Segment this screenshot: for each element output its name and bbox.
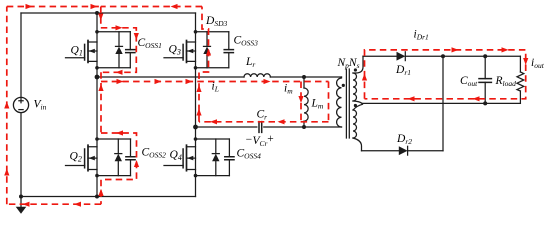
svg-text:Vin: Vin bbox=[34, 99, 47, 112]
svg-text:iL: iL bbox=[212, 81, 219, 94]
transistor Q2 bbox=[66, 145, 98, 171]
wire red COSS1 loop bbox=[101, 28, 137, 73]
wire Q4 cell bottom bbox=[196, 175, 230, 177]
wire red iL line bbox=[101, 81, 329, 83]
svg-text:Dr2: Dr2 bbox=[396, 133, 412, 146]
wire rectifier link bbox=[442, 56, 444, 151]
wire Cr rail bbox=[196, 126, 342, 128]
wire Q1 cell bottom bbox=[97, 67, 130, 69]
wire red Cr return bbox=[199, 121, 329, 123]
wire Q2 leg bbox=[96, 77, 98, 197]
transformer secondary winding 2 bbox=[353, 104, 363, 150]
wire red bottom return bbox=[7, 203, 101, 205]
wire red node B riser bbox=[199, 7, 209, 122]
svg-text:COSS2: COSS2 bbox=[142, 147, 167, 160]
capacitor COSS4 bbox=[225, 139, 234, 176]
ground bbox=[16, 197, 27, 214]
node dots bbox=[19, 11, 487, 199]
svg-text:Dr1: Dr1 bbox=[395, 64, 411, 77]
svg-text:Lr: Lr bbox=[245, 56, 255, 69]
wire Q2 cell top bbox=[97, 138, 131, 140]
svg-text:NpNs: NpNs bbox=[337, 57, 360, 70]
transistor Q3 bbox=[164, 41, 196, 63]
transformer primary Np bbox=[337, 77, 342, 127]
capacitor Cr bbox=[259, 122, 262, 133]
wire bottom rail bbox=[21, 196, 196, 198]
transformer secondary winding 1 bbox=[353, 56, 363, 103]
wire Q3-Q4 leg bbox=[195, 13, 197, 197]
svg-text:Q1: Q1 bbox=[71, 45, 83, 58]
svg-text:COSS1: COSS1 bbox=[138, 37, 162, 50]
svg-text:COSS3: COSS3 bbox=[234, 35, 259, 48]
svg-text:COSS4: COSS4 bbox=[237, 148, 262, 161]
svg-text:DSD3: DSD3 bbox=[205, 15, 227, 28]
diode DSD3 bbox=[203, 32, 210, 68]
wire top rail bbox=[21, 12, 196, 14]
red current paths bbox=[7, 7, 526, 205]
wire Dr1 rail bbox=[363, 55, 520, 57]
svg-text:Q4: Q4 bbox=[170, 149, 182, 162]
wire red left edge bbox=[6, 7, 8, 205]
capacitor COSS2 bbox=[126, 139, 135, 176]
diode Dr2 bbox=[399, 146, 408, 155]
diode Q1 body bbox=[115, 32, 122, 68]
wire Q3 cell bottom bbox=[196, 67, 229, 69]
diode Q4 body bbox=[212, 139, 219, 176]
wire node A rail bbox=[97, 76, 244, 78]
wire red Q1 descent bbox=[100, 7, 102, 28]
svg-text:iDr1: iDr1 bbox=[414, 29, 429, 42]
svg-text:Rload: Rload bbox=[495, 75, 517, 88]
diode Q2 body bbox=[115, 139, 122, 176]
inductor Lr bbox=[244, 74, 270, 77]
wire red im branch bbox=[300, 82, 302, 122]
transistor Q4 bbox=[164, 145, 196, 171]
wire Q2 cell bottom bbox=[97, 175, 131, 177]
wire Q4 cell top bbox=[196, 138, 230, 140]
wire red COSS2 loop bbox=[101, 133, 137, 204]
svg-text:+: + bbox=[267, 133, 275, 145]
wire node A rail right bbox=[270, 76, 341, 78]
wire Dr2 row bbox=[362, 150, 444, 152]
svg-text:Cr: Cr bbox=[257, 109, 268, 122]
wire red Lm box right bbox=[328, 82, 330, 122]
inductor Lm bbox=[304, 77, 308, 127]
transformer core bbox=[346, 69, 349, 138]
wire left vertical bbox=[20, 13, 22, 197]
wire red left leg bbox=[100, 72, 102, 133]
source Vin bbox=[13, 97, 28, 112]
svg-text:Lm: Lm bbox=[311, 98, 324, 111]
svg-text:im: im bbox=[284, 83, 293, 96]
transistor Q1 bbox=[66, 41, 98, 63]
svg-text:Q3: Q3 bbox=[169, 44, 181, 57]
wire Q3 cell top bbox=[196, 31, 229, 33]
capacitor COSS3 bbox=[224, 32, 233, 68]
wire red secondary loop bbox=[365, 50, 526, 99]
wire Q1 leg bbox=[96, 13, 98, 77]
wire red top right bbox=[101, 6, 202, 8]
wire output minus rail bbox=[362, 102, 520, 104]
svg-text:Q2: Q2 bbox=[70, 151, 82, 164]
diode Dr1 bbox=[397, 52, 406, 61]
svg-text:Cout: Cout bbox=[460, 75, 478, 88]
capacitor Cout bbox=[479, 56, 491, 103]
wire red top left bbox=[7, 6, 101, 8]
capacitor COSS1 bbox=[126, 32, 135, 68]
resistor Rload bbox=[517, 56, 524, 103]
svg-text:iout: iout bbox=[531, 57, 545, 70]
wire Q1 cell top bbox=[97, 31, 130, 33]
svg-text:VCr: VCr bbox=[253, 135, 268, 148]
